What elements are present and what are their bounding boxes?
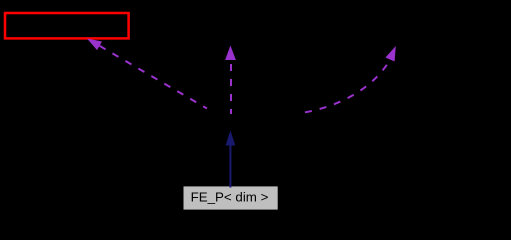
svg-text:FE_P< dim >: FE_P< dim > <box>191 190 269 205</box>
